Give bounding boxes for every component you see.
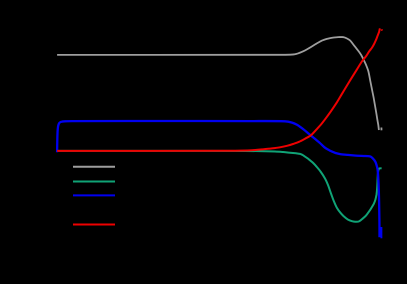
green curve (series 2) [57, 151, 382, 222]
red curve clipped end dot [381, 29, 384, 30]
blue curve clipped end segment [380, 227, 382, 238]
gray curve (series 1) [57, 37, 379, 130]
legend swatch red [73, 224, 115, 226]
red curve (series 4) [57, 28, 380, 150]
legend swatch blue [73, 194, 115, 196]
legend swatch gray [73, 166, 115, 168]
gray curve clipped end dot [380, 128, 382, 131]
legend swatch green [73, 181, 115, 183]
blue curve (series 3) [57, 121, 379, 237]
